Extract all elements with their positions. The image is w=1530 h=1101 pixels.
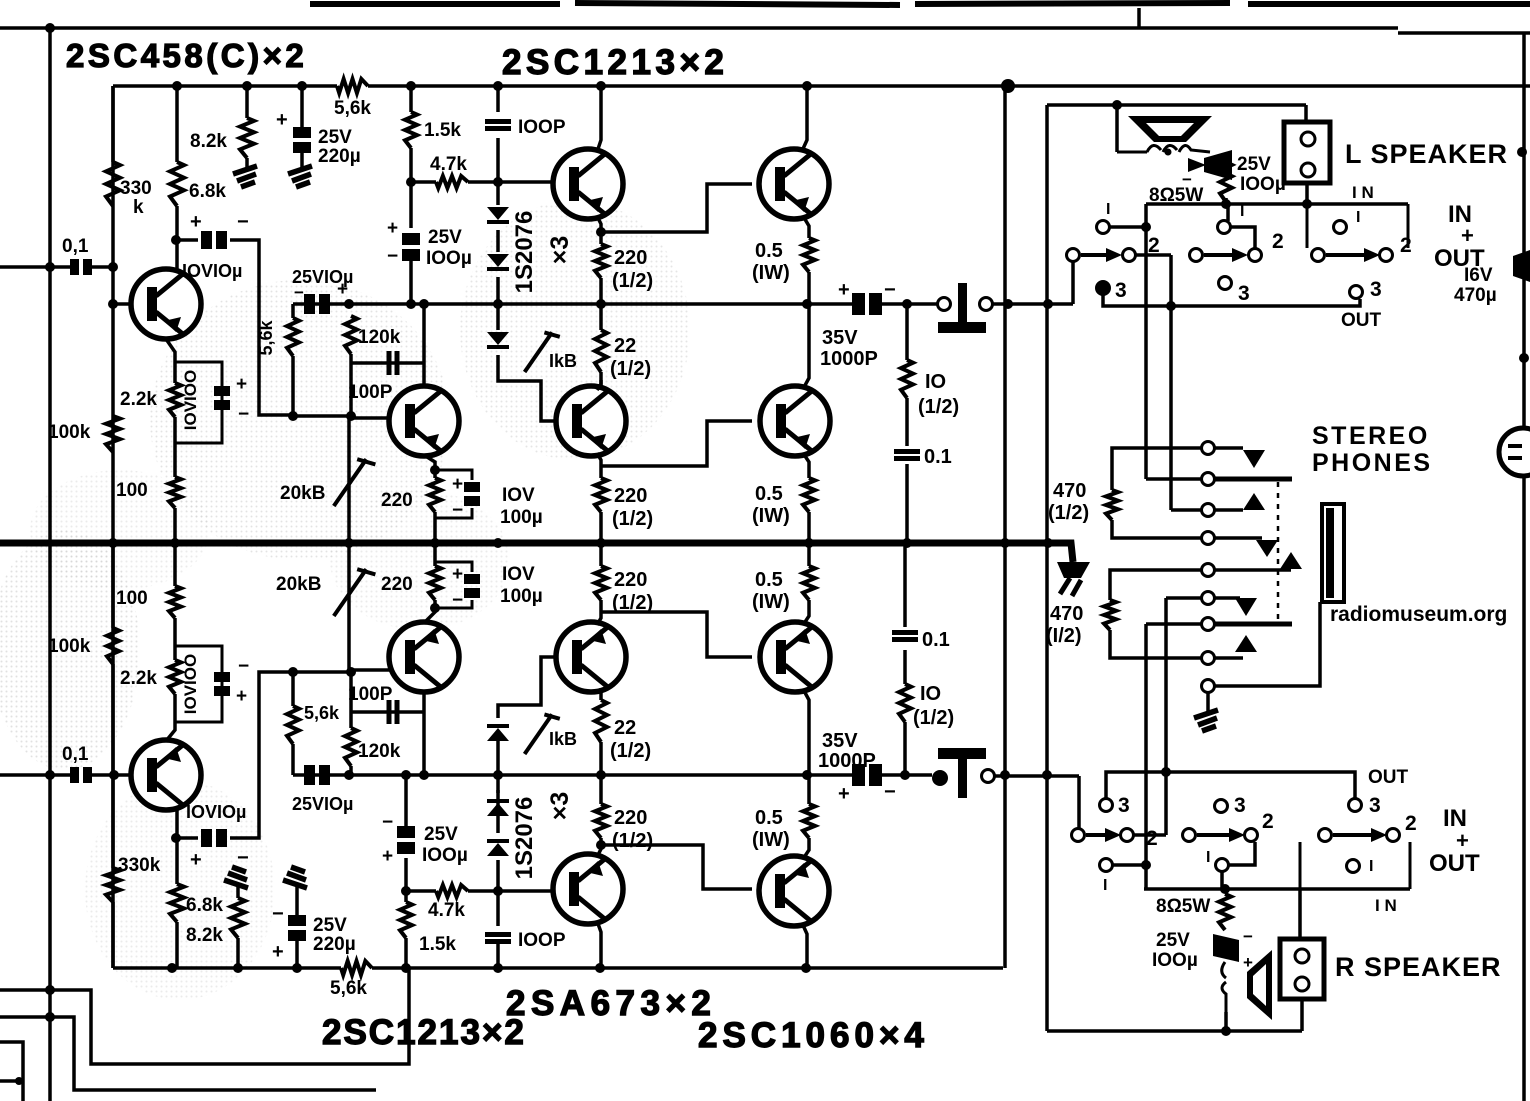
svg-text:IkB: IkB	[549, 351, 577, 371]
node Q8 emitter 220 bottom	[430, 603, 440, 613]
svg-text:IOOµ: IOOµ	[426, 248, 472, 269]
capacitor 10V100 bottom	[214, 672, 230, 696]
junction bottom rail x406	[401, 963, 411, 973]
svg-text:−: −	[272, 903, 284, 925]
svg-text:25V: 25V	[318, 127, 352, 148]
wire 220 to out line R	[599, 775, 603, 804]
wire input L from left edge	[0, 265, 71, 269]
wire 100 to mid rail	[173, 508, 177, 543]
terminal circle out L right	[980, 298, 993, 311]
wire 100 to mid rail R	[173, 543, 177, 586]
wire node down to cap R	[404, 858, 408, 891]
node selector row1 L	[1141, 222, 1151, 232]
capacitor 0.1 input L	[70, 259, 92, 275]
L box terminal 1	[1301, 132, 1315, 146]
junction mid rail x435	[430, 538, 440, 548]
switch arrow R row2 left	[1086, 828, 1121, 842]
svg-text:−: −	[1243, 927, 1253, 946]
switch circle R row2 b1	[1183, 829, 1196, 842]
resistor 220 emitter bottom	[429, 566, 441, 600]
switch circle R row2 d2	[1387, 829, 1400, 842]
wire Q6 emitter to 0.5	[803, 453, 809, 478]
svg-text:IOV: IOV	[502, 564, 535, 585]
switch circle R row2 b2	[1245, 829, 1258, 842]
wire 5.6k to cap node	[291, 356, 295, 415]
wire feedback box 10V100 top	[175, 362, 222, 443]
wire node to 120k bottom	[293, 414, 351, 418]
wire out R down to selector	[1077, 776, 1081, 828]
svg-text:+: +	[838, 279, 850, 301]
resistor 0.5 1W lower top	[803, 478, 815, 512]
svg-text:IO: IO	[920, 683, 941, 705]
switch circle L row1 b	[1218, 221, 1231, 234]
wire R row1 b stem	[1220, 872, 1224, 889]
node out L x1008	[1003, 299, 1013, 309]
wire L box to feed	[1304, 105, 1308, 122]
wire Q4 collector to rail	[802, 86, 807, 151]
junction left frame input L	[45, 262, 55, 272]
terminal circle out L left	[938, 298, 951, 311]
node 16V cap	[1519, 353, 1529, 363]
transistor Q4 2SC1060 upper (L)	[759, 149, 829, 219]
wire R box bottom	[1300, 999, 1304, 1031]
node input L base divider	[108, 262, 118, 272]
junction mid rail x113	[108, 538, 118, 548]
wire base feed Q9 right	[468, 889, 554, 893]
top supply rail segment left	[113, 84, 337, 88]
wire speaker feed L	[1047, 103, 1306, 107]
svg-text:5,6k: 5,6k	[256, 320, 276, 356]
resistor 22 1/2 top	[595, 330, 607, 372]
wire R row1 a	[1113, 863, 1146, 867]
wire Q3 collector to rail	[597, 86, 601, 152]
switch arrow L row2 right	[1326, 248, 1380, 262]
node Q8 collector at out line R	[419, 770, 429, 780]
svg-text:1000P: 1000P	[820, 348, 878, 370]
wire 0.5 to mid rail R	[807, 543, 811, 566]
node bus1 left vertical	[45, 985, 55, 995]
wire out R to switches	[995, 774, 1079, 778]
transistor Q7 2SC458 (R input)	[131, 740, 201, 810]
transistor Q5 2SA673 (L)	[556, 386, 626, 456]
top supply rail segment right	[368, 84, 1530, 88]
svg-text:100P: 100P	[348, 382, 393, 403]
resistor 220 emitter top	[429, 478, 441, 512]
wire collector to cap 10V10u R	[176, 836, 198, 840]
wire 1.5k to base wire R	[404, 891, 408, 902]
wire bottom left bus 3	[0, 1042, 23, 1101]
phones contact circle 2	[1202, 473, 1215, 486]
ground at mid rail right end	[1057, 562, 1090, 578]
svg-text:+: +	[387, 218, 398, 239]
svg-text:330: 330	[120, 178, 152, 199]
resistor 10 1/2 top	[901, 360, 913, 398]
capacitor 16V470u at right edge	[1513, 250, 1530, 282]
svg-text:1.5k: 1.5k	[424, 120, 461, 141]
wire L box bottom to switch wire	[1305, 183, 1309, 204]
svg-text:+: +	[382, 846, 393, 867]
wire 330k to bottom rail	[111, 902, 115, 968]
speaker symbol L coil	[1117, 145, 1210, 152]
node R return speaker	[1221, 1026, 1231, 1036]
svg-text:−: −	[237, 211, 249, 233]
wire selector left drop	[1144, 204, 1148, 479]
svg-text:IO: IO	[925, 371, 946, 393]
svg-text:100µ: 100µ	[500, 507, 543, 528]
svg-text:100k: 100k	[48, 636, 91, 657]
svg-text:I N: I N	[1375, 896, 1397, 915]
transistor Q3 2SC1213 upper (L)	[553, 149, 623, 219]
svg-text:(1/2): (1/2)	[918, 396, 959, 418]
svg-text:+: +	[190, 849, 202, 871]
wire node to Q8 base R	[351, 668, 390, 672]
transistor Q1 2SC458 (L input)	[131, 269, 201, 339]
svg-text:0,1: 0,1	[62, 744, 89, 765]
junction bottom rail x238	[233, 963, 243, 973]
transistor Q11 2SA673 (R)	[556, 622, 626, 692]
wire Q7 emitter to 2.2k	[166, 694, 175, 741]
wire phones c1	[1215, 446, 1243, 450]
wire base feed Qup1 left	[411, 180, 436, 184]
switch circle R row1 a	[1100, 859, 1113, 872]
switch arrow L row2 mid	[1204, 248, 1248, 262]
svg-text:25V: 25V	[428, 227, 462, 248]
phones dashed line	[1277, 482, 1280, 624]
transistor Q10 2SC1060 lower (R)	[759, 856, 829, 926]
wire 0.1 to mid rail R	[903, 543, 907, 627]
wire 100P to 182 node	[496, 138, 500, 182]
node 120k bottom	[346, 411, 356, 421]
svg-text:(1/2): (1/2)	[612, 830, 653, 852]
node x601 out line R	[596, 770, 606, 780]
wire 5.6k leads R a	[291, 672, 295, 706]
wire Q2 collector up	[422, 304, 426, 387]
svg-text:5,6k: 5,6k	[304, 703, 340, 723]
junction top rail x601	[596, 81, 606, 91]
wire diode col to pot node R	[498, 657, 556, 718]
wire diode column lower bottom	[496, 940, 500, 968]
svg-text:k: k	[133, 197, 144, 218]
svg-text:25V: 25V	[313, 915, 347, 936]
phones contact triangle up 2	[1280, 552, 1302, 569]
wire 6.8k to rail bottom	[175, 922, 179, 968]
svg-text:−: −	[382, 812, 393, 833]
mid ground rail (thick)	[0, 543, 1073, 562]
junction top rail x807	[802, 81, 812, 91]
svg-text:35V: 35V	[822, 730, 858, 752]
wire 220 to mid rail bottom	[433, 543, 437, 566]
svg-text:100k: 100k	[48, 422, 91, 443]
svg-text:220: 220	[614, 247, 647, 269]
node input R base	[109, 770, 119, 780]
node diode col at out line R	[493, 770, 503, 780]
wire Q6 collector to out line	[803, 304, 809, 389]
node R row1 x1146	[1141, 860, 1151, 870]
svg-text:(1/2): (1/2)	[610, 740, 651, 762]
capacitor 0.1 input R	[70, 767, 92, 783]
wire Q12 collector to out line R	[803, 689, 809, 775]
resistor 5.6k vertical top	[287, 318, 299, 356]
svg-text:220: 220	[381, 490, 413, 511]
svg-text:(IW): (IW)	[752, 262, 790, 284]
node Q2 collector at out line	[419, 299, 429, 309]
node out R x1005	[1000, 770, 1010, 780]
svg-text:220µ: 220µ	[313, 934, 356, 955]
switch circle R row1 b	[1216, 859, 1229, 872]
svg-text:2.2k: 2.2k	[120, 668, 157, 689]
svg-text:R SPEAKER: R SPEAKER	[1335, 952, 1502, 982]
junction frame-left	[45, 23, 55, 33]
node Q9 emitter	[596, 840, 606, 850]
svg-text:3: 3	[1118, 794, 1130, 817]
phones contact circle 3	[1202, 504, 1215, 517]
resistor 120k top	[345, 316, 357, 354]
node x411 on out line	[406, 299, 416, 309]
wire Q9 collector to rail	[597, 921, 601, 968]
resistor 8.2k bottom	[231, 898, 245, 938]
R IN/OUT box	[1300, 842, 1410, 889]
ground above 8.2k bottom	[224, 867, 248, 888]
wire L row1 b stem	[1226, 206, 1230, 221]
wire 220u cap top lead	[300, 86, 304, 127]
wire 25V100u to out line	[409, 261, 413, 304]
phones contact triangle down 1	[1243, 450, 1265, 468]
svg-text:(1/2): (1/2)	[1048, 502, 1089, 524]
svg-text:2: 2	[1146, 827, 1158, 850]
wire phones c3 left stub	[1171, 508, 1201, 512]
wire 10V100u branch top	[435, 470, 472, 518]
resistor 6.8k top	[170, 162, 184, 206]
switch circle L row2 d1	[1312, 249, 1325, 262]
wire 22 to out line R	[599, 742, 603, 775]
switch circle L row2 c	[1249, 249, 1262, 262]
switch circle R row2 d1	[1319, 829, 1332, 842]
capacitor 35V 1000P top	[852, 293, 882, 315]
resistor 220 1/2 upper top	[595, 244, 607, 278]
wire Q11 emitter up R	[597, 600, 601, 625]
resistor 120k bottom	[345, 728, 357, 766]
node output R x905	[900, 770, 910, 780]
wire Q5 emitter to Q6 base	[601, 421, 752, 466]
svg-text:−: −	[237, 847, 249, 869]
phones contact circle 5	[1202, 564, 1215, 577]
wire 8.2k to ground bottom	[236, 884, 240, 898]
resistor 100 bottom	[169, 586, 181, 618]
svg-text:2: 2	[1272, 230, 1284, 253]
svg-text:220µ: 220µ	[318, 146, 361, 167]
svg-text:2: 2	[1400, 234, 1412, 257]
svg-text:220: 220	[614, 569, 647, 591]
node 1.5k-4.7k R	[401, 886, 411, 896]
svg-text:2SC1213×2: 2SC1213×2	[322, 1013, 526, 1052]
transistor Q12 2SC1060 mid (R)	[760, 622, 830, 692]
svg-text:470: 470	[1053, 480, 1086, 502]
wire 22 to out line	[599, 304, 603, 330]
wire 10V100u branch bottom	[435, 562, 472, 608]
resistor 100k bottom	[107, 628, 119, 664]
junction bottom rail x172	[167, 963, 177, 973]
svg-text:470: 470	[1050, 603, 1083, 625]
svg-text:5,6k: 5,6k	[330, 978, 367, 999]
svg-text:IOOP: IOOP	[518, 930, 566, 951]
svg-text:25VIOµ: 25VIOµ	[292, 794, 353, 814]
svg-text:2SC458(C)×2: 2SC458(C)×2	[66, 37, 307, 74]
svg-text:0.5: 0.5	[755, 807, 783, 829]
node Q2 emitter 220 top	[430, 465, 440, 475]
transistor Q8 driver (R)	[389, 622, 459, 692]
switch arrow L row2 left	[1081, 248, 1122, 262]
wire 470 bracket bottom	[1112, 520, 1201, 538]
left frame vertical wire	[48, 28, 52, 1101]
node x406 on out line R	[401, 770, 411, 780]
wire bottom left bus 1	[0, 968, 409, 1064]
svg-text:−: −	[452, 590, 463, 611]
svg-text:(1/2): (1/2)	[610, 358, 651, 380]
wire inner-left edge bottom half	[111, 543, 115, 968]
phones contact triangle down 3	[1235, 598, 1257, 616]
junction bottom rail x600	[595, 963, 605, 973]
wire 1.5k node down to cap	[409, 182, 413, 228]
wire Q4 emitter to 0.5	[803, 216, 809, 238]
wire node to Q2 base	[351, 416, 390, 420]
output line L	[293, 302, 855, 306]
svg-text:IOOµ: IOOµ	[1240, 174, 1286, 195]
transistor Q6 2SC1060 mid (L)	[760, 386, 830, 456]
svg-text:I: I	[1206, 849, 1210, 866]
wire feedback box 10V100 bottom	[175, 646, 222, 722]
wire phones c6 stub	[1166, 596, 1201, 600]
switch circle L row3 a	[1097, 282, 1110, 295]
wire 5.6k leads R b	[291, 744, 295, 775]
wire diode to out line	[496, 277, 500, 304]
svg-text:25V: 25V	[424, 824, 458, 845]
wire 0.5 to mid rail	[807, 512, 811, 543]
wire 5.6k top lead	[291, 304, 295, 318]
switch arrow R row2 mid	[1197, 828, 1245, 842]
capacitor 25V100u driver top	[402, 233, 420, 261]
potentiometer 1kB bottom wiper	[525, 714, 560, 754]
wire Q1 collector	[175, 206, 179, 270]
diode 1S2076 D3 top	[487, 332, 509, 347]
wire 10 res to 0.1 cap R	[903, 650, 907, 684]
wire diode column upper top	[496, 86, 500, 112]
svg-text:IOVIOµ: IOVIOµ	[186, 802, 246, 822]
svg-text:L SPEAKER: L SPEAKER	[1345, 139, 1508, 169]
wire Q3 emitter to Q4 base	[601, 184, 752, 232]
resistor 470 1/2 lower	[1104, 600, 1116, 630]
wire R row2 stub to x1166	[1134, 833, 1166, 837]
svg-text:+: +	[272, 941, 284, 963]
phones contact triangle up 3	[1235, 635, 1257, 652]
switch circle R row2 a2	[1121, 829, 1134, 842]
svg-text:I: I	[1369, 858, 1373, 875]
wire L row3 to out bus	[1103, 295, 1360, 306]
svg-text:0,1: 0,1	[62, 236, 89, 257]
svg-text:3: 3	[1115, 279, 1127, 302]
resistor 2.2k bottom	[169, 660, 181, 694]
L speaker terminal box	[1284, 122, 1330, 183]
svg-text:100: 100	[116, 588, 148, 609]
svg-text:20kB: 20kB	[276, 574, 321, 595]
long vertical wire A (x1005)	[1003, 86, 1007, 968]
capacitor 10V10u bottom	[201, 829, 227, 847]
wire blade upper stub	[1146, 477, 1201, 481]
switch circle R row3 c	[1349, 799, 1362, 812]
wire Q5 emitter to node	[597, 453, 601, 478]
svg-text:35V: 35V	[822, 327, 858, 349]
wire 0.5 to out line R	[807, 775, 811, 804]
wire diode col above out R	[496, 735, 500, 775]
resistor 8 ohm 5W bottom	[1219, 894, 1231, 930]
svg-text:4.7k: 4.7k	[428, 900, 465, 921]
node out L x1048	[1043, 299, 1053, 309]
svg-text:IOVIOO: IOVIOO	[181, 370, 200, 430]
svg-text:IOVIOO: IOVIOO	[181, 654, 200, 714]
wire diode col below out	[496, 304, 500, 330]
switch arrow R row2 right	[1333, 828, 1387, 842]
svg-text:25V: 25V	[1237, 154, 1271, 175]
svg-text:(IW): (IW)	[752, 591, 790, 613]
resistor 330k bottom	[106, 868, 120, 902]
switch circle R in1	[1347, 860, 1360, 873]
resistor 5.6k vertical bottom	[287, 706, 299, 744]
wire cap to 5.6k node R	[230, 672, 293, 838]
resistor 100k top	[106, 416, 120, 452]
svg-text:I: I	[1103, 877, 1107, 894]
wire Q8 emitter to 220 R	[424, 600, 435, 623]
wire Q5 collector to 22	[599, 380, 603, 390]
svg-text:5,6k: 5,6k	[334, 98, 371, 119]
wire phones c8	[1215, 656, 1243, 660]
phones contact circle 4	[1202, 532, 1215, 545]
wire 120k to out line R	[349, 766, 353, 775]
resistor 8 ohm 5W top	[1220, 162, 1232, 202]
svg-text:×3: ×3	[546, 236, 574, 265]
capacitor 25V 220u top	[293, 127, 311, 153]
resistor 330k top	[106, 162, 120, 206]
phones blade lower	[1215, 622, 1292, 627]
resistor 220 1/2 lower top	[595, 478, 607, 512]
node Q3 emitter	[596, 227, 606, 237]
wire Q11 collector to 22 R	[599, 688, 603, 700]
svg-text:+: +	[337, 279, 348, 300]
svg-text:(1/2): (1/2)	[913, 707, 954, 729]
pilot lamp at right edge	[1499, 428, 1530, 476]
node 5.6k bottom	[288, 411, 298, 421]
wire 2.2k to 100 R	[173, 618, 177, 660]
wire Q8 collector down	[422, 691, 426, 775]
capacitor 100P second stage bottom	[389, 700, 397, 724]
svg-text:3: 3	[1234, 794, 1246, 817]
potentiometer 20kB top wiper	[334, 459, 376, 506]
phones contact triangle up 1	[1243, 493, 1265, 510]
speaker symbol R horn	[1247, 950, 1272, 1020]
node input L base	[108, 299, 118, 309]
wire out L to switches	[993, 302, 1073, 306]
wire 220 to mid rail x601	[599, 512, 603, 543]
svg-text:OUT: OUT	[1341, 310, 1382, 331]
wire R row1 b	[1229, 842, 1255, 865]
node bus3	[15, 1077, 23, 1085]
svg-text:IOVIOµ: IOVIOµ	[182, 261, 242, 281]
wire Q9 emitter to Q10 base	[601, 845, 752, 889]
wire cap 10V10u to 5.6k node	[230, 240, 293, 415]
capacitor 0.1 out top	[894, 452, 920, 459]
wire Q7 collector down	[175, 809, 179, 838]
svg-text:OUT: OUT	[1429, 850, 1480, 877]
junction top rail x247	[242, 81, 252, 91]
wire diode col 182-215	[496, 182, 500, 205]
